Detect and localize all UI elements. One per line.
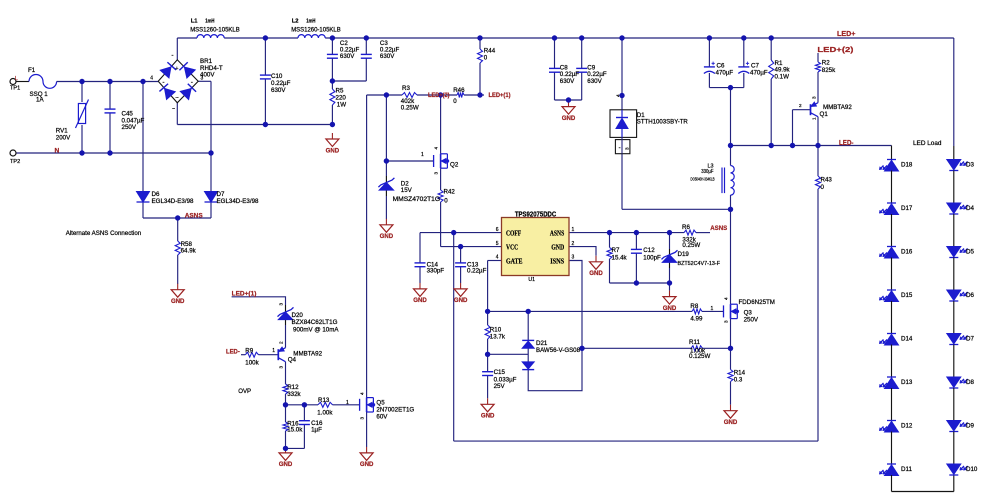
svg-text:Q1: Q1 [820,111,829,118]
svg-text:R42: R42 [444,188,456,195]
svg-text:-: - [191,79,193,86]
svg-text:4: 4 [724,297,729,300]
svg-text:LED-: LED- [839,138,854,147]
svg-text:630V: 630V [587,78,602,85]
svg-text:Alternate ASNS Connection: Alternate ASNS Connection [66,230,142,237]
svg-text:R11: R11 [689,339,700,346]
svg-text:F1: F1 [28,67,36,74]
svg-text:D13: D13 [901,379,913,386]
svg-text:D14: D14 [901,335,913,342]
svg-text:LED Load: LED Load [913,140,942,147]
svg-text:D19: D19 [678,251,690,258]
svg-text:BAW56-V-GS08: BAW56-V-GS08 [536,347,581,354]
svg-text:OVP: OVP [238,388,251,395]
svg-text:U1: U1 [528,277,535,283]
svg-text:EGL34D-E3/98: EGL34D-E3/98 [152,198,195,205]
svg-text:15.4k: 15.4k [612,254,628,261]
svg-text:R10: R10 [490,327,502,334]
svg-text:0.125W: 0.125W [689,353,710,360]
svg-text:0: 0 [484,54,488,61]
svg-text:0.22µF: 0.22µF [467,267,487,274]
svg-text:C10: C10 [271,73,283,80]
svg-text:+: + [746,61,750,67]
svg-text:6: 6 [496,227,499,233]
svg-text:3: 3 [812,96,817,99]
svg-text:250V: 250V [744,316,759,323]
svg-text:MMBTA92: MMBTA92 [293,350,322,357]
svg-text:GND: GND [171,298,185,305]
svg-text:1: 1 [572,227,575,233]
svg-text:COFF: COFF [506,229,522,238]
svg-text:2: 2 [572,241,575,247]
svg-text:FDD6N25TM: FDD6N25TM [739,299,775,306]
svg-text:200V: 200V [56,134,71,141]
svg-text:D8: D8 [966,379,974,386]
svg-text:LED-: LED- [226,348,240,355]
svg-text:1: 1 [346,400,349,406]
svg-text:EGL34D-E3/98: EGL34D-E3/98 [217,198,260,205]
svg-text:R46: R46 [453,87,465,94]
svg-text:400V: 400V [200,72,215,79]
svg-text:330µF: 330µF [701,169,714,175]
svg-text:LED+(1): LED+(1) [489,92,511,99]
svg-text:GND: GND [589,270,603,277]
svg-text:1.00k: 1.00k [317,409,333,416]
svg-text:470µF: 470µF [716,70,734,77]
svg-text:ASNS: ASNS [185,212,204,219]
svg-text:LED+: LED+ [837,29,856,38]
svg-text:15.0k: 15.0k [287,426,303,433]
svg-text:100k: 100k [245,360,259,367]
svg-text:1µF: 1µF [311,426,322,433]
svg-text:D15: D15 [901,292,913,299]
svg-text:R6: R6 [682,224,690,231]
svg-text:GND: GND [413,297,427,304]
svg-text:D16: D16 [901,248,913,255]
svg-text:3: 3 [572,255,575,261]
svg-text:220: 220 [336,94,347,101]
svg-text:4: 4 [496,255,499,261]
svg-text:GATE: GATE [506,256,523,265]
svg-text:STTH1003SBY-TR: STTH1003SBY-TR [637,118,689,125]
svg-text:GND: GND [562,115,576,122]
svg-text:0: 0 [444,198,448,205]
svg-text:BZX84C62LT1G: BZX84C62LT1G [292,319,338,326]
svg-text:-: - [162,79,164,86]
svg-text:D4: D4 [966,205,974,212]
svg-text:C7: C7 [751,63,759,70]
svg-text:D18: D18 [901,161,913,168]
svg-text:13.7k: 13.7k [490,334,506,341]
svg-text:D5: D5 [966,249,974,256]
svg-text:TPS92075DDC: TPS92075DDC [515,209,556,218]
svg-text:0.22µF: 0.22µF [271,80,291,87]
svg-text:630V: 630V [560,78,575,85]
svg-text:TP2: TP2 [10,159,20,165]
svg-text:N: N [55,147,60,154]
svg-text:-: - [619,146,621,152]
svg-text:VCC: VCC [506,243,518,252]
svg-text:1: 1 [711,306,714,312]
svg-text:60V: 60V [376,413,388,420]
svg-text:3: 3 [279,303,284,306]
svg-text:R7: R7 [612,247,620,254]
svg-text:MSS1260-105KLB: MSS1260-105KLB [291,28,341,34]
svg-text:4.99: 4.99 [690,316,703,323]
svg-text:R13: R13 [318,397,330,404]
svg-text:D11: D11 [901,466,912,473]
svg-text:LED+(2): LED+(2) [817,45,854,54]
svg-text:+: + [175,66,178,72]
svg-text:100pF: 100pF [643,254,661,261]
svg-text:MSS1260-105KLB: MSS1260-105KLB [190,28,240,34]
svg-text:DO5040H-334KLB: DO5040H-334KLB [691,176,715,182]
svg-text:64.9k: 64.9k [181,248,197,255]
svg-text:Q4: Q4 [288,356,297,363]
svg-text:GND: GND [481,413,495,420]
svg-text:1mH: 1mH [306,18,315,24]
svg-text:ASNS: ASNS [710,225,728,232]
svg-text:1mH: 1mH [205,18,214,24]
svg-text:D9: D9 [966,423,974,430]
svg-text:R43: R43 [821,177,833,184]
svg-text:3: 3 [434,172,439,175]
svg-text:4: 4 [150,76,153,82]
svg-text:D17: D17 [901,205,913,212]
svg-text:GND: GND [279,461,293,468]
svg-text:1W: 1W [337,101,346,108]
svg-text:ASNS: ASNS [550,229,564,238]
svg-text:1: 1 [812,117,817,120]
svg-text:+: + [711,61,715,67]
svg-text:15V: 15V [401,187,413,194]
svg-text:ISNS: ISNS [550,256,564,265]
svg-text:0: 0 [821,184,825,191]
svg-text:~: ~ [175,96,178,102]
svg-text:-: - [171,52,173,59]
svg-text:D3: D3 [966,162,974,169]
svg-text:~: ~ [172,107,175,113]
svg-text:5: 5 [496,241,499,247]
svg-text:1: 1 [272,348,275,354]
svg-text:C12: C12 [643,247,655,254]
svg-text:0.25W: 0.25W [682,242,700,249]
svg-text:GND: GND [724,419,738,426]
svg-text:MMBTA92: MMBTA92 [823,104,852,111]
svg-text:R12: R12 [287,384,299,391]
svg-text:4: 4 [434,147,439,150]
svg-text:3: 3 [625,147,630,150]
svg-text:0.3: 0.3 [734,376,743,383]
svg-text:LED+(1): LED+(1) [232,290,257,297]
svg-text:D6: D6 [966,292,974,299]
svg-text:D21: D21 [536,340,548,347]
svg-text:900mV @ 10mA: 900mV @ 10mA [293,327,339,334]
svg-text:630V: 630V [340,53,355,60]
svg-text:L1: L1 [191,18,199,24]
svg-text:R3: R3 [402,85,410,92]
svg-text:0.1W: 0.1W [775,73,790,80]
svg-text:25V: 25V [494,383,506,390]
svg-text:Q3: Q3 [744,309,753,316]
svg-text:0.25W: 0.25W [401,104,419,111]
svg-text:470µF: 470µF [750,70,768,77]
svg-text:GND: GND [380,233,394,240]
svg-text:BZT52C4V7-13-F: BZT52C4V7-13-F [678,261,721,267]
svg-text:TP1: TP1 [10,86,20,92]
svg-text:3: 3 [724,320,729,323]
svg-text:D10: D10 [966,466,978,473]
svg-text:D7: D7 [966,336,974,343]
svg-text:1A: 1A [36,96,44,103]
svg-text:630V: 630V [271,87,286,94]
svg-text:R8: R8 [690,303,698,310]
svg-text:Q2: Q2 [450,162,459,169]
svg-text:C6: C6 [717,63,725,70]
svg-text:GND: GND [551,243,564,252]
svg-text:Q5: Q5 [376,400,385,407]
svg-text:L: L [15,76,18,82]
svg-text:R2: R2 [822,60,830,67]
svg-text:3: 3 [279,366,284,369]
svg-text:332k: 332k [287,391,301,398]
svg-text:R9: R9 [245,347,253,354]
svg-text:C15: C15 [494,369,506,376]
svg-text:2: 2 [279,341,284,344]
svg-text:GND: GND [663,305,677,312]
svg-text:330pF: 330pF [427,267,445,274]
svg-text:GND: GND [326,147,340,154]
svg-text:4: 4 [360,392,365,395]
svg-text:2: 2 [799,103,802,108]
svg-text:0: 0 [453,98,457,105]
svg-text:L2: L2 [292,18,299,24]
svg-text:MMSZ4702T1G: MMSZ4702T1G [393,196,441,203]
svg-text:D12: D12 [901,422,913,429]
svg-text:GND: GND [454,297,468,304]
svg-text:825k: 825k [822,67,836,74]
svg-text:250V: 250V [122,124,137,131]
svg-text:LED+(2): LED+(2) [428,92,450,99]
svg-text:3: 3 [360,417,365,420]
svg-text:1: 1 [421,152,424,158]
svg-text:GND: GND [360,461,374,468]
svg-text:630V: 630V [380,53,395,60]
